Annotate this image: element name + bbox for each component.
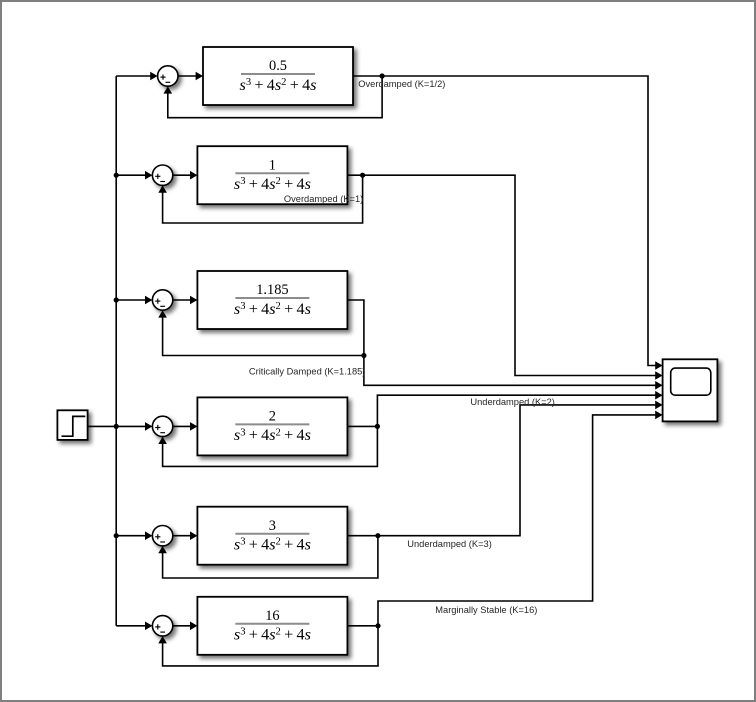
wire: trunk to sum S5 <box>116 535 146 537</box>
wire: sum S4 to block G4 <box>173 425 191 427</box>
svg-text:s3 + 4s2 + 4s: s3 + 4s2 + 4s <box>234 536 311 554</box>
wire: feedback loop 2 <box>163 175 363 223</box>
wire: sum S5 to block G5 <box>173 535 191 537</box>
S3 plus sign <box>155 300 160 302</box>
wire: sum S2 to block G2 <box>173 174 191 176</box>
svg-text:Marginally Stable (K=16): Marginally Stable (K=16) <box>435 605 537 615</box>
wire: G6 output to scope (input 6) <box>347 625 378 627</box>
svg-text:Critically Damped (K=1.185): Critically Damped (K=1.185) <box>249 367 366 377</box>
wire: source trunk vertical <box>115 76 117 626</box>
S5 plus sign <box>155 536 160 538</box>
S2 plus sign <box>155 175 160 177</box>
svg-text:s3 + 4s2 + 4s: s3 + 4s2 + 4s <box>240 76 317 94</box>
sum junction S2 <box>152 165 172 185</box>
S2 minus sign <box>160 181 165 183</box>
wire: feedback loop 1 <box>168 76 382 118</box>
G1 fraction bar <box>241 73 315 75</box>
transfer function block G5: 3/(s^3+4s^2+4s) <box>197 507 347 565</box>
transfer function block G3: 1.185/(s^3+4s^2+4s) <box>197 271 347 329</box>
svg-text:s3 + 4s2 + 4s: s3 + 4s2 + 4s <box>234 626 311 644</box>
transfer function block G6: 16/(s^3+4s^2+4s) <box>197 597 347 655</box>
scope screen <box>671 368 711 395</box>
junction: G4 output tap <box>375 424 380 429</box>
junction: G2 output tap <box>360 173 365 178</box>
wire: step output to sum S4 <box>88 425 146 427</box>
transfer function block G2: 1/(s^3+4s^2+4s) <box>197 146 347 204</box>
G6 fraction bar <box>235 623 309 625</box>
wire: trunk to sum S6 <box>116 625 146 627</box>
wire: feedback loop 5 <box>163 536 378 578</box>
S1 minus sign <box>166 81 171 83</box>
wire: sum S3 to block G3 <box>173 299 191 301</box>
G4 fraction bar <box>235 423 309 425</box>
wire: G4 output to scope (input 4) <box>347 425 377 427</box>
step icon <box>62 416 86 436</box>
sum junction S4 <box>152 416 172 436</box>
junction: step/trunk <box>114 424 119 429</box>
wire: G3 output down and to scope (input 3) <box>347 300 656 385</box>
sum junction S1 <box>158 66 178 86</box>
S5 minus sign <box>160 541 165 543</box>
wire: G2 output to scope (input 2) <box>347 175 656 375</box>
junction: trunk at row 5 <box>114 533 119 538</box>
wire: feedback loop 6 <box>163 626 378 666</box>
G5 fraction bar <box>235 533 309 535</box>
wire: feedback loop 4 <box>163 426 378 466</box>
S4 minus sign <box>160 432 165 434</box>
junction: G1 output tap <box>380 73 385 78</box>
svg-text:1: 1 <box>269 157 276 173</box>
wire: trunk to sum S2 <box>116 174 146 176</box>
svg-text:s3 + 4s2 + 4s: s3 + 4s2 + 4s <box>234 300 311 318</box>
svg-text:1.185: 1.185 <box>256 282 288 298</box>
svg-text:2: 2 <box>269 409 276 425</box>
wire: G5 output to scope (input 5) <box>347 405 656 536</box>
transfer function block G1: 0.5/(s^3+4s^2+4s) <box>203 47 353 105</box>
step source block <box>57 410 87 440</box>
svg-text:s3 + 4s2 + 4s: s3 + 4s2 + 4s <box>234 426 311 444</box>
svg-text:0.5: 0.5 <box>269 58 287 74</box>
svg-text:Overdamped (K=1/2): Overdamped (K=1/2) <box>358 79 445 89</box>
svg-text:16: 16 <box>265 608 279 624</box>
wire: sum S1 to block G1 <box>178 75 197 77</box>
svg-text:Underdamped (K=2): Underdamped (K=2) <box>470 397 555 407</box>
junction: trunk at row 3 <box>114 297 119 302</box>
scope block <box>663 359 718 421</box>
S6 minus sign <box>160 631 165 633</box>
junction: trunk at row 2 <box>114 173 119 178</box>
S1 plus sign <box>160 76 165 78</box>
junction: G6 output tap <box>375 623 380 628</box>
S6 plus sign <box>155 626 160 628</box>
junction: G5 output tap <box>375 533 380 538</box>
wire: trunk to sum S1 <box>116 75 151 77</box>
svg-text:Underdamped (K=3): Underdamped (K=3) <box>407 539 492 549</box>
G3 fraction bar <box>235 297 309 299</box>
wire: G1 output to scope (input 1) <box>353 76 656 366</box>
sum junction S5 <box>152 526 172 546</box>
G2 fraction bar <box>235 172 309 174</box>
svg-text:Overdamped (K=1): Overdamped (K=1) <box>284 194 363 204</box>
wire: sum S6 to block G6 <box>173 625 191 627</box>
svg-text:3: 3 <box>269 518 276 534</box>
transfer function block G4: 2/(s^3+4s^2+4s) <box>197 397 347 455</box>
S4 plus sign <box>155 427 160 429</box>
svg-text:s3 + 4s2 + 4s: s3 + 4s2 + 4s <box>234 175 311 193</box>
S3 minus sign <box>160 305 165 307</box>
wire: trunk to sum S3 <box>116 299 146 301</box>
sum junction S3 <box>152 290 172 310</box>
junction: G3 output tap <box>361 353 366 358</box>
wire: feedback loop 3 <box>163 317 364 356</box>
sum junction S6 <box>152 616 172 636</box>
